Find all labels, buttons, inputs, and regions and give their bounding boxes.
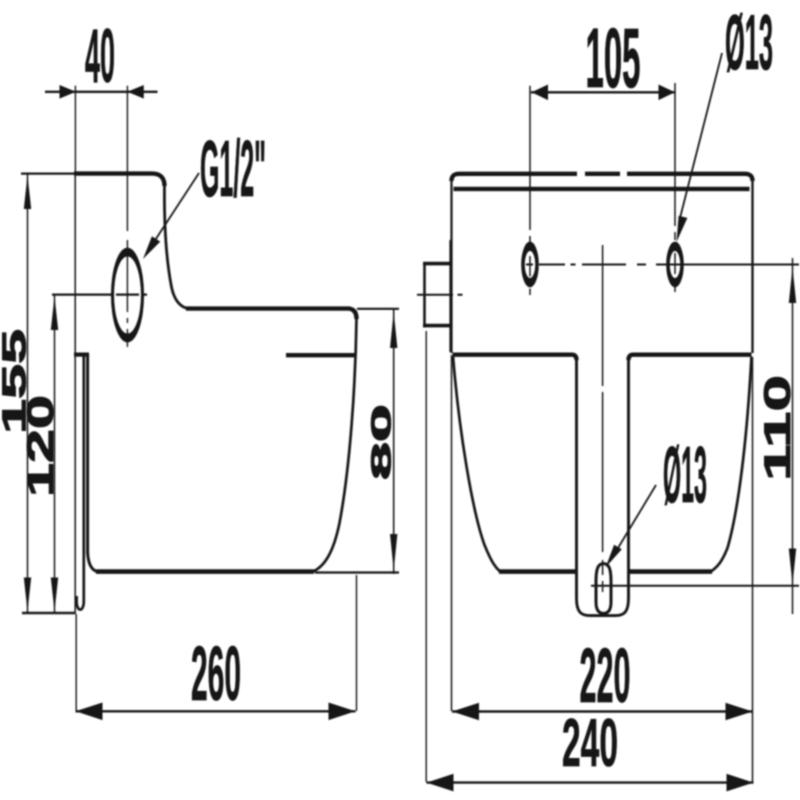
tank right wall [751,178,753,353]
bottom bold right segment [629,569,713,574]
body left curve [453,357,500,572]
bottom extension line at drain center [591,585,799,587]
svg-text:240: 240 [562,705,618,781]
240 dimension line [427,781,754,783]
G1/2 leader arrowhead [143,236,160,259]
bottom O13 leader arrowhead [606,545,622,568]
bracket right edge S-curve [164,184,189,309]
120 arrows [51,296,58,612]
wall plate back thin line [74,172,76,614]
80 bottom extension [315,571,399,573]
220 arrows [452,703,753,721]
80 top extension [357,308,399,310]
svg-text:80: 80 [366,404,397,480]
drain slot oval [596,564,611,614]
svg-text:120: 120 [20,395,61,497]
rim upper bold line with corners and gaps [452,174,753,181]
central vertical centerline [602,245,604,592]
trough bottom bold line [96,569,314,574]
hole vertical centerline [126,86,128,347]
right hole vertical centerline / 105 extension [674,83,676,292]
240 left extension [425,331,427,782]
G1/2 hole ellipse [113,252,143,338]
260 right extension [356,575,358,711]
80 dimension line [393,309,395,574]
svg-text:Ø13: Ø13 [725,0,773,86]
svg-text:260: 260 [191,631,241,717]
260 arrows [76,703,356,721]
inner ledge bold line [286,353,356,357]
110 dimension line [792,258,794,614]
80 arrows [390,312,397,571]
inlet nut left [423,262,426,328]
110 arrows [789,267,796,585]
inlet centerline [417,294,463,296]
40 left extension [74,86,76,172]
body right curve [711,357,752,572]
40 dimension line [45,91,158,93]
bottom bold left segment [499,569,577,574]
svg-text:40: 40 [85,14,115,99]
bottom O13 leader line [612,485,656,558]
260 left extension [75,614,77,711]
220 left extension (wall line continues) [451,355,453,711]
260 dimension line [76,710,356,712]
105 dimension line [531,91,675,93]
inlet nut bottom [423,324,450,328]
inlet nut top [423,262,450,266]
rim top bold line [186,309,357,319]
drain column walls and outer U [577,358,629,616]
trough left bottom curve [88,552,97,572]
bottom extension line [22,612,75,614]
105 arrows [532,85,676,101]
155 arrows [24,175,31,612]
plate top cap [74,353,89,357]
right wall curve of trough [313,318,357,572]
155 dimension line [27,174,29,613]
120 dimension line [54,295,56,612]
220/240 right extension [752,357,754,782]
155 top extension [21,173,75,175]
flange bottom bold right segment [629,355,752,360]
tank left wall [450,178,452,353]
svg-text:105: 105 [586,11,641,105]
svg-text:Ø13: Ø13 [663,430,707,519]
220 dimension line [452,710,753,712]
trough left wall bold [86,354,89,553]
bracket top bold line with right corner [74,174,165,186]
svg-text:G1/2": G1/2" [200,124,266,213]
flange bottom bold left segment [453,355,577,360]
hole horizontal centerline / 120 top extension [52,294,147,296]
svg-text:110: 110 [757,375,798,481]
top O13 leader line [680,53,722,218]
left hole vertical centerline / 105 extension [529,86,531,295]
40 arrows [60,85,144,99]
top O13 leader arrowhead [677,216,688,242]
holes horizontal dash-dot centerline [526,264,799,266]
240 arrows [427,774,754,792]
rim lower bold line [454,187,750,191]
G1/2 leader line [148,173,199,251]
left mounting hole [523,246,682,282]
wall plate front bold with rounded bottom [77,353,84,610]
